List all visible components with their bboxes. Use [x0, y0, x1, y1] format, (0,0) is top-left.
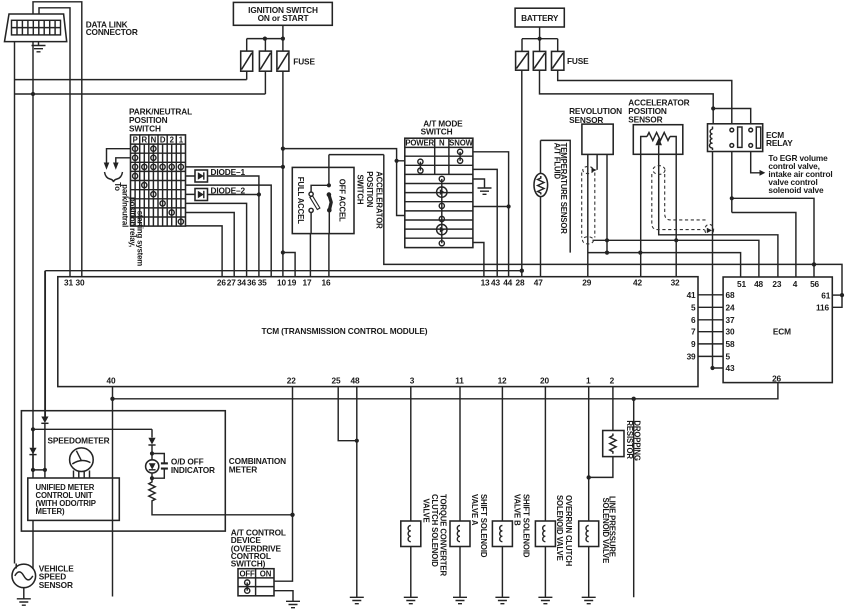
svg-text:23: 23 — [772, 279, 781, 289]
svg-text:SHIFT SOLENOID: SHIFT SOLENOID — [479, 494, 488, 558]
svg-text:POWER: POWER — [405, 138, 434, 147]
svg-text:3: 3 — [410, 376, 415, 386]
svg-text:ON or START: ON or START — [258, 13, 309, 23]
svg-text:SWITCH: SWITCH — [356, 175, 365, 205]
svg-text:N: N — [151, 135, 157, 144]
svg-text:11: 11 — [455, 376, 464, 386]
svg-text:N: N — [439, 138, 445, 147]
svg-text:OVERRUN CLUTCH: OVERRUN CLUTCH — [564, 495, 573, 567]
svg-text:10: 10 — [277, 278, 286, 288]
svg-text:P: P — [133, 135, 138, 144]
svg-text:SWITCH): SWITCH) — [231, 559, 266, 569]
svg-text:40: 40 — [107, 376, 116, 386]
svg-text:116: 116 — [816, 303, 829, 313]
svg-text:TCM (TRANSMISSION CONTROL MODU: TCM (TRANSMISSION CONTROL MODULE) — [262, 326, 428, 336]
svg-text:D: D — [160, 135, 166, 144]
svg-text:solenoid valve: solenoid valve — [768, 185, 824, 195]
svg-text:ECM: ECM — [773, 327, 791, 337]
svg-text:36: 36 — [247, 278, 256, 288]
svg-text:TEMPERATURE SENSOR: TEMPERATURE SENSOR — [559, 143, 568, 235]
svg-text:ON: ON — [260, 570, 272, 579]
svg-text:42: 42 — [633, 278, 642, 288]
svg-text:30: 30 — [76, 278, 85, 288]
svg-text:48: 48 — [351, 376, 360, 386]
svg-text:FUSE: FUSE — [293, 56, 315, 66]
svg-text:starting system: starting system — [136, 211, 145, 267]
svg-text:RELAY: RELAY — [766, 138, 793, 148]
svg-text:ACCELERATOR: ACCELERATOR — [375, 171, 384, 229]
svg-text:OFF ACCEL: OFF ACCEL — [338, 179, 347, 222]
svg-text:RESISTOR: RESISTOR — [625, 420, 634, 459]
svg-text:METER): METER) — [36, 507, 66, 516]
svg-text:6: 6 — [691, 315, 696, 325]
svg-text:CONNECTOR: CONNECTOR — [86, 27, 138, 37]
svg-text:4: 4 — [793, 279, 798, 289]
svg-text:26: 26 — [772, 374, 781, 384]
svg-text:FULL ACCEL: FULL ACCEL — [296, 177, 305, 224]
svg-text:41: 41 — [687, 290, 696, 300]
svg-text:68: 68 — [726, 290, 735, 300]
svg-text:17: 17 — [303, 278, 312, 288]
svg-text:FUSE: FUSE — [567, 56, 589, 66]
svg-text:R: R — [142, 135, 148, 144]
svg-text:SWITCH: SWITCH — [129, 124, 161, 134]
svg-text:25: 25 — [332, 376, 341, 386]
svg-text:22: 22 — [287, 376, 296, 386]
svg-text:5: 5 — [691, 302, 696, 312]
svg-text:56: 56 — [810, 279, 819, 289]
svg-text:2: 2 — [610, 376, 615, 386]
svg-text:16: 16 — [322, 278, 331, 288]
svg-text:27: 27 — [227, 278, 236, 288]
svg-text:19: 19 — [287, 278, 296, 288]
svg-text:35: 35 — [258, 278, 267, 288]
svg-text:POSITION: POSITION — [365, 171, 374, 208]
svg-text:SENSOR: SENSOR — [39, 580, 73, 590]
svg-text:29: 29 — [582, 278, 591, 288]
svg-text:VALVE A: VALVE A — [470, 494, 479, 526]
svg-text:SPEEDOMETER: SPEEDOMETER — [48, 435, 110, 445]
svg-text:61: 61 — [821, 290, 830, 300]
svg-text:24: 24 — [726, 302, 735, 312]
svg-text:34: 34 — [237, 278, 246, 288]
svg-text:58: 58 — [726, 339, 735, 349]
svg-text:43: 43 — [491, 278, 500, 288]
svg-text:VALVE B: VALVE B — [513, 494, 522, 526]
svg-text:51: 51 — [737, 279, 746, 289]
svg-text:47: 47 — [534, 278, 543, 288]
svg-text:26: 26 — [217, 278, 226, 288]
svg-text:43: 43 — [726, 363, 735, 373]
svg-text:13: 13 — [481, 278, 490, 288]
svg-text:31: 31 — [64, 278, 73, 288]
svg-text:48: 48 — [754, 279, 763, 289]
svg-text:5: 5 — [726, 351, 731, 361]
svg-text:7: 7 — [691, 327, 696, 337]
svg-text:INDICATOR: INDICATOR — [171, 465, 215, 475]
svg-text:44: 44 — [503, 278, 512, 288]
svg-text:METER: METER — [229, 465, 257, 475]
svg-text:28: 28 — [516, 278, 525, 288]
svg-text:VALVE: VALVE — [422, 499, 431, 523]
svg-text:30: 30 — [726, 327, 735, 337]
svg-text:OFF: OFF — [240, 570, 256, 579]
svg-text:SOLENOID VALVE: SOLENOID VALVE — [555, 495, 564, 561]
svg-text:SHIFT SOLENOID: SHIFT SOLENOID — [522, 494, 531, 558]
svg-text:37: 37 — [726, 315, 735, 325]
svg-text:1: 1 — [586, 376, 591, 386]
svg-text:32: 32 — [671, 278, 680, 288]
svg-text:9: 9 — [691, 339, 696, 349]
svg-text:SENSOR: SENSOR — [628, 114, 662, 124]
svg-text:20: 20 — [540, 376, 549, 386]
svg-text:39: 39 — [687, 351, 696, 361]
svg-text:BATTERY: BATTERY — [521, 13, 559, 23]
svg-text:SOLENOID VALVE: SOLENOID VALVE — [601, 498, 610, 564]
svg-text:SWITCH: SWITCH — [421, 127, 453, 137]
svg-text:SNOW: SNOW — [449, 138, 473, 147]
svg-text:12: 12 — [498, 376, 507, 386]
